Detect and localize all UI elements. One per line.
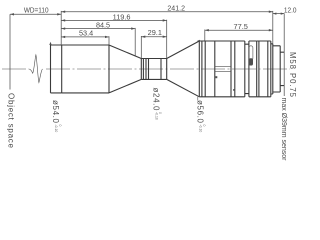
dimension 119.6 (61, 12, 167, 21)
svg-text:119.6: 119.6 (113, 12, 131, 21)
mid cylinder grooves (143, 59, 161, 80)
set screw dot 1 (215, 76, 217, 78)
svg-text:-0.10: -0.10 (154, 112, 158, 120)
svg-text:M58 P0.75: M58 P0.75 (288, 52, 297, 98)
expanding cone (167, 41, 200, 97)
ring C groove (267, 41, 269, 97)
extension line x109 above barrel (108, 36, 110, 45)
dimension 53.4 (61, 29, 109, 38)
centerline break squiggle (29, 55, 43, 83)
thread tube M58 (273, 46, 280, 92)
svg-text:Object space: Object space (7, 93, 16, 149)
dimension 84.5 (61, 21, 135, 30)
dimension 29.1 (141, 28, 166, 38)
ring A (199, 41, 245, 97)
label dia 54 (51, 100, 62, 132)
ring A grooves (202, 41, 235, 97)
front ring (49, 42, 61, 93)
collar (271, 44, 273, 94)
image plane line (283, 13, 285, 96)
set screw dot 2 (233, 89, 235, 91)
label dia 56 (195, 97, 206, 133)
band line (258, 41, 260, 97)
extension line x135.2 (134, 28, 136, 56)
extension line x166.7 (166, 20, 168, 59)
front barrel face (61, 45, 63, 93)
svg-text:241.2: 241.2 (167, 4, 185, 13)
front barrel body (62, 45, 109, 93)
dimension 77.5 (205, 22, 273, 31)
svg-text:29.1: 29.1 (148, 28, 162, 37)
svg-text:84.5: 84.5 (96, 21, 110, 30)
svg-text:ø56.0: ø56.0 (195, 100, 204, 124)
ring C (257, 41, 271, 97)
centerline (2, 68, 290, 70)
svg-text:12.0: 12.0 (284, 5, 297, 14)
svg-text:ø54.0: ø54.0 (51, 100, 60, 124)
lock screw slot (249, 46, 253, 60)
svg-text:WD=110: WD=110 (24, 6, 49, 15)
svg-text:-0.10: -0.10 (54, 125, 58, 133)
svg-text:max Ø39mm sensor: max Ø39mm sensor (280, 98, 287, 162)
svg-text:77.5: 77.5 (234, 22, 248, 31)
object space line (9, 14, 11, 89)
extension line x204.8 (204, 30, 206, 42)
cone corner blob (197, 40, 200, 42)
ring A window lines (215, 66, 231, 71)
slot section (249, 41, 257, 97)
label dia 24 (151, 88, 162, 120)
extension line x272.8 mount face (272, 11, 274, 44)
taper cone (109, 45, 141, 93)
extension line x141.3 (140, 36, 142, 58)
lock screw head (249, 58, 253, 65)
svg-text:53.4: 53.4 (79, 29, 93, 38)
dimension 241.2 (61, 4, 273, 13)
svg-text:-0.10: -0.10 (198, 125, 202, 133)
groove section (245, 44, 249, 93)
mid cylinder o24 (141, 59, 166, 80)
dimension WD=110 (10, 6, 61, 16)
ring A right edge (244, 41, 246, 97)
svg-text:ø24.0: ø24.0 (151, 88, 160, 112)
dimension 12.0 (273, 5, 297, 14)
barrel right edge (108, 45, 110, 93)
rear opening (280, 52, 284, 85)
extension line front face (60, 11, 62, 45)
